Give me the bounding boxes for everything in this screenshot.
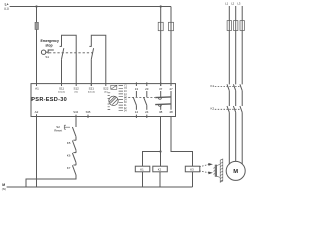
svg-text:(L1): (L1) bbox=[4, 6, 9, 10]
wire fuse F1 to terminal A1 bbox=[36, 30, 38, 87]
motor brake bbox=[213, 159, 222, 182]
terminal 37 bbox=[160, 82, 162, 86]
wire phases fuses to K1 contacts bbox=[229, 31, 242, 85]
internal input marks left of logic bbox=[108, 93, 111, 110]
svg-text:M: M bbox=[233, 169, 238, 175]
delay symbol lower bbox=[158, 105, 161, 107]
svg-text:47: 47 bbox=[169, 87, 173, 91]
internal pin ladder right of logic bbox=[119, 85, 128, 112]
wire branch to coil K2 bbox=[160, 152, 162, 167]
reset contact S2 (NO) bbox=[72, 127, 76, 140]
wire coil K3 to rail bbox=[192, 172, 194, 187]
wire 38 down to coil branch bbox=[160, 117, 162, 152]
contact S1.2 (NC) bbox=[89, 46, 93, 86]
delay symbol upper bbox=[158, 98, 161, 100]
svg-text:K1: K1 bbox=[211, 84, 215, 88]
delayed contact bottom stubs 38 48 bbox=[160, 105, 162, 110]
svg-text:(N): (N) bbox=[2, 187, 6, 191]
svg-text:K2: K2 bbox=[211, 107, 215, 111]
terminal S12 (In) bbox=[75, 84, 77, 86]
wire loop S21 to S22 bbox=[91, 35, 106, 83]
terminal S35 bbox=[87, 115, 89, 118]
node M (N) label bbox=[2, 183, 6, 191]
svg-text:S21: S21 bbox=[89, 87, 95, 91]
wire phases K2 to motor bbox=[229, 112, 242, 164]
feedback contact K6 (NC) bbox=[72, 153, 76, 165]
delayed contact bridge upper (37/47) bbox=[155, 96, 171, 99]
svg-text:K1: K1 bbox=[140, 167, 144, 171]
contact S1.1 (NC) bbox=[60, 46, 64, 86]
wire fuse F2 to terminal 37 bbox=[160, 31, 162, 86]
svg-text:(In): (In) bbox=[104, 91, 108, 93]
terminal A1 bbox=[36, 84, 38, 86]
delayed contact stubs 37 47 bbox=[161, 91, 171, 110]
output contact 23-24 bbox=[144, 91, 147, 110]
wire top supply rail L+ bbox=[10, 6, 171, 8]
terminal A2 bbox=[36, 114, 38, 118]
svg-text:37: 37 bbox=[159, 87, 163, 91]
delayed contact bridge lower (38/48) bbox=[155, 103, 171, 106]
wire 0V bottom rail bbox=[7, 186, 193, 188]
fuse F4 (L1) bbox=[227, 21, 231, 31]
svg-text:S11: S11 bbox=[59, 87, 64, 91]
terminal S21 (Clock) bbox=[90, 84, 92, 86]
svg-text:23: 23 bbox=[145, 87, 149, 91]
terminal tick 14 bbox=[135, 115, 137, 118]
feedback contact K7 (NC) bbox=[72, 165, 76, 175]
fuse F1 bbox=[35, 22, 38, 29]
wire S34 down to reset chain bbox=[75, 117, 77, 128]
contactor coil K1 bbox=[135, 166, 150, 172]
contactor contact K2/L2 bbox=[233, 106, 235, 112]
contactor contact K2/L1 bbox=[227, 106, 229, 112]
label S2 Reset bbox=[54, 125, 62, 133]
arrow upper bbox=[208, 163, 213, 166]
svg-text:K3: K3 bbox=[190, 167, 194, 171]
svg-text:S35: S35 bbox=[86, 110, 91, 114]
wire phase L2 bbox=[235, 6, 237, 21]
dashed mechanical link S1 to contacts bbox=[49, 52, 93, 54]
svg-text:K6: K6 bbox=[67, 153, 71, 157]
wire rail end to fuse F3 bbox=[170, 7, 172, 23]
svg-text:S12: S12 bbox=[74, 87, 80, 91]
svg-text:A1: A1 bbox=[35, 87, 39, 91]
emergency stop label bbox=[41, 39, 59, 47]
fuse F2 bbox=[158, 22, 163, 30]
wire fuse F3 to terminal 47 bbox=[170, 31, 172, 86]
node L1 L2 L3 labels bbox=[225, 2, 241, 6]
svg-text:PSR-ESD-30: PSR-ESD-30 bbox=[31, 97, 67, 103]
internal power supply symbol bbox=[111, 85, 117, 89]
svg-text:Reset: Reset bbox=[54, 128, 62, 132]
terminal 13 bbox=[135, 82, 137, 86]
wire rail to fuse F2 bbox=[160, 7, 162, 23]
junction dot at 37 branch bbox=[160, 5, 162, 7]
contactor coil K3 bbox=[185, 166, 200, 172]
fuse F5 (L2) bbox=[234, 21, 238, 31]
svg-text:14: 14 bbox=[135, 110, 139, 114]
svg-text:stop: stop bbox=[45, 43, 52, 47]
wire phase L3 bbox=[241, 6, 243, 21]
svg-text:K5: K5 bbox=[67, 141, 71, 145]
svg-text:K7: K7 bbox=[67, 166, 71, 170]
contactor contact K2/L3 bbox=[240, 106, 242, 112]
svg-text:L3: L3 bbox=[237, 2, 240, 6]
svg-text:A2: A2 bbox=[35, 110, 39, 114]
wire coil K2 to rail bbox=[159, 172, 161, 187]
contactor coil K2 bbox=[153, 166, 168, 172]
terminal tick 24 bbox=[146, 115, 148, 118]
svg-text:13: 13 bbox=[135, 87, 139, 91]
internal logic module circle bbox=[109, 96, 118, 105]
svg-text:24: 24 bbox=[145, 110, 149, 114]
contactor contact K1/L2 bbox=[233, 84, 235, 90]
relay box U1 PSR-ESD-30 bbox=[31, 84, 176, 117]
wire feedback chain to 0V rail bbox=[26, 175, 76, 187]
svg-text:(In): (In) bbox=[75, 91, 79, 93]
feedback contact K5 (NC) bbox=[72, 140, 76, 152]
svg-text:48: 48 bbox=[169, 110, 173, 114]
arrow lower bbox=[208, 172, 213, 175]
svg-text:38: 38 bbox=[159, 110, 163, 114]
dashed link K2 main contacts bbox=[215, 108, 241, 110]
wire branch to coil K1 bbox=[143, 152, 161, 167]
terminal S11 (Clock) bbox=[61, 84, 63, 86]
terminal S34 bbox=[75, 115, 77, 118]
terminal 47 bbox=[170, 82, 172, 86]
dashed mechanical link ladder to output contacts bbox=[125, 96, 156, 98]
svg-text:S1: S1 bbox=[45, 55, 49, 59]
contactor contact K1/L1 bbox=[227, 84, 229, 90]
dashed link K1 main contacts bbox=[215, 86, 241, 88]
junction dot coil branch bbox=[159, 150, 161, 152]
wire phase L1 bbox=[228, 6, 230, 21]
wire 48 to coil K3 bbox=[171, 117, 193, 167]
svg-text:L1: L1 bbox=[225, 2, 228, 6]
svg-text:K2: K2 bbox=[158, 167, 162, 171]
node L+ (L1) label bbox=[4, 3, 9, 11]
svg-text:(Clock): (Clock) bbox=[88, 91, 95, 93]
motor M bbox=[226, 161, 245, 180]
wire rail to fuse F1 bbox=[36, 7, 38, 23]
wire A2 down to 0V rail bbox=[36, 117, 38, 188]
reset button S2 plunger bbox=[64, 125, 70, 129]
contactor contact K1/L3 bbox=[240, 84, 242, 90]
emergency stop button S1 bbox=[41, 49, 53, 54]
wire coil K1 to rail bbox=[142, 172, 144, 187]
svg-text:(Clock): (Clock) bbox=[58, 91, 65, 93]
dashed mechanical link coil K3 to brake lower bbox=[199, 171, 208, 173]
terminal 23 bbox=[146, 82, 148, 86]
dashed mechanical link coil K3 to brake upper bbox=[199, 164, 208, 166]
wire phases K1 to K2 bbox=[229, 91, 242, 106]
svg-text:S34: S34 bbox=[73, 110, 78, 114]
output contact 13-14 bbox=[133, 91, 136, 110]
svg-text:L2: L2 bbox=[231, 2, 234, 6]
svg-text:S22: S22 bbox=[103, 87, 109, 91]
fuse F3 bbox=[169, 22, 174, 30]
terminal S22 (In) bbox=[105, 84, 107, 86]
wire loop S11 to S12 bbox=[62, 35, 77, 83]
junction dot at A1 branch bbox=[35, 5, 37, 7]
fuse F6 (L3) bbox=[240, 21, 244, 31]
